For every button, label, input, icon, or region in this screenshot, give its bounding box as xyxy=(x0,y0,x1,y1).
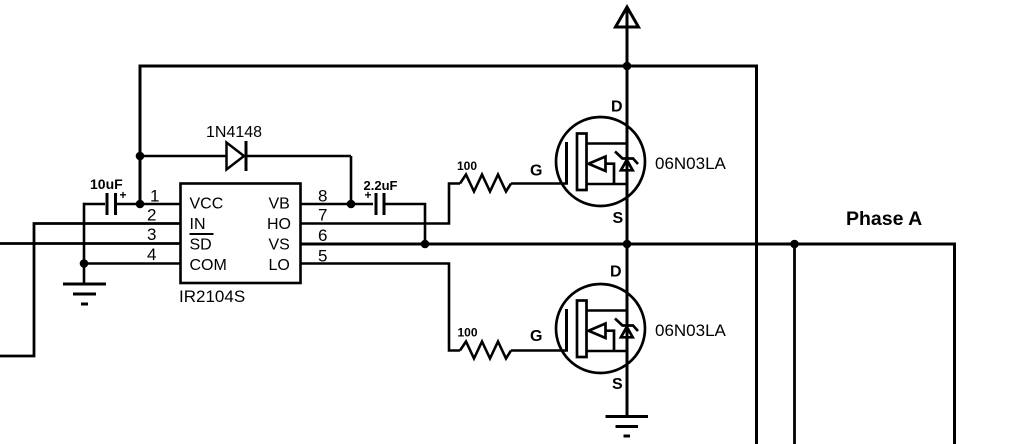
wire: SD input wire xyxy=(0,242,180,245)
svg-text:1: 1 xyxy=(150,187,159,206)
svg-text:G: G xyxy=(530,163,542,180)
svg-text:100: 100 xyxy=(457,159,477,173)
SD overline xyxy=(190,233,214,235)
MOSFET Q1 06N03LA xyxy=(556,117,645,206)
wire: VCC riser xyxy=(139,65,142,206)
diode D1 1N4148 xyxy=(227,141,247,171)
svg-text:D: D xyxy=(610,264,622,281)
wire: VB pin wire xyxy=(301,203,373,206)
svg-text:+: + xyxy=(365,188,372,202)
wire: main vertical drain/source line xyxy=(626,9,629,417)
wire: IN input wire xyxy=(0,224,180,357)
node: phase at drain line xyxy=(623,240,632,249)
svg-text:+: + xyxy=(120,188,127,202)
svg-text:COM: COM xyxy=(190,257,227,274)
wire: phase drop mid xyxy=(793,244,796,444)
wire: diode cathode wire xyxy=(247,155,351,158)
svg-text:3: 3 xyxy=(147,225,156,244)
svg-text:HO: HO xyxy=(267,216,291,233)
wire: diode anode wire xyxy=(140,155,226,158)
svg-text:VS: VS xyxy=(269,237,290,254)
resistor R2 100 xyxy=(460,342,511,359)
wire: LO pin wire xyxy=(301,264,460,351)
svg-text:2: 2 xyxy=(147,206,156,225)
wire: right drop from top rail xyxy=(755,66,758,444)
node: VCC node xyxy=(136,200,145,209)
svg-text:S: S xyxy=(613,210,624,227)
svg-text:LO: LO xyxy=(269,257,290,274)
wire: top supply rail xyxy=(139,65,759,68)
wire: gate wire top xyxy=(511,182,567,185)
svg-text:IR2104S: IR2104S xyxy=(179,287,245,306)
node: phase tap xyxy=(790,240,799,249)
svg-text:VCC: VCC xyxy=(190,196,224,213)
MOSFET Q2 06N03LA xyxy=(556,284,645,373)
svg-text:D: D xyxy=(611,99,623,116)
svg-text:7: 7 xyxy=(318,206,327,225)
svg-text:6: 6 xyxy=(318,226,327,245)
resistor R1 100 xyxy=(460,175,511,192)
svg-text:1N4148: 1N4148 xyxy=(206,124,262,141)
svg-text:8: 8 xyxy=(318,187,327,206)
capacitor C2 2.2uF xyxy=(376,193,384,215)
svg-text:SD: SD xyxy=(190,237,212,254)
svg-text:06N03LA: 06N03LA xyxy=(655,154,727,173)
svg-text:Phase A: Phase A xyxy=(846,208,922,230)
svg-text:S: S xyxy=(612,376,623,393)
IC U1 IR2104S body xyxy=(181,184,301,284)
svg-text:G: G xyxy=(530,328,542,345)
wire: HO pin wire xyxy=(301,184,460,224)
wire: cathode drop to VB xyxy=(350,156,353,204)
power V+ arrow xyxy=(616,7,639,27)
wire: phase drop right xyxy=(953,243,956,444)
node: COM ground junction xyxy=(80,259,89,268)
wire: gate wire bottom xyxy=(511,349,567,352)
node: diode anode tap xyxy=(136,152,145,161)
svg-text:10uF: 10uF xyxy=(90,176,123,192)
node: VB junction xyxy=(347,200,356,209)
ground GND2 xyxy=(606,417,649,437)
wire: VCC pin wire left of cap xyxy=(84,203,105,206)
ground GND1 xyxy=(63,264,106,305)
wire: cap ground drop xyxy=(83,203,86,264)
svg-text:100: 100 xyxy=(458,326,478,340)
svg-text:06N03LA: 06N03LA xyxy=(655,321,727,340)
wire: C2 to VS drop xyxy=(386,204,426,244)
wire: COM pin wire xyxy=(84,262,180,265)
capacitor C1 10uF xyxy=(107,193,116,215)
svg-text:VB: VB xyxy=(269,196,290,213)
svg-text:4: 4 xyxy=(147,245,156,264)
node: supply junction xyxy=(623,62,632,71)
wire: VS phase line xyxy=(301,243,956,246)
node: VS junction xyxy=(421,240,430,249)
wire: VCC pin wire right of cap xyxy=(117,203,180,206)
svg-text:IN: IN xyxy=(190,216,206,233)
